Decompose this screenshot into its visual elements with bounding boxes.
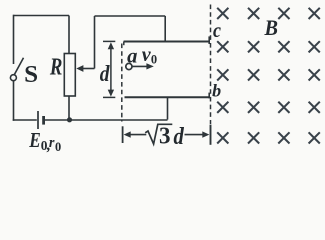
node c tick at top plate end — [208, 36, 210, 44]
rheostat wiper arrow — [76, 65, 94, 72]
wire wiper vertical — [94, 16, 96, 69]
svg-text:0: 0 — [151, 53, 157, 67]
node a circle — [126, 63, 132, 69]
svg-text:0: 0 — [55, 140, 61, 154]
wire to top plate — [164, 16, 166, 42]
wire plate circuit top — [95, 15, 166, 17]
dimension arrow d — [103, 41, 115, 97]
wire bottom left segment — [13, 119, 37, 121]
svg-text:d: d — [174, 123, 185, 150]
dashed boundary line right — [210, 5, 212, 125]
resistor R — [64, 54, 75, 97]
wire top of left loop — [14, 15, 70, 17]
wire left side lower — [13, 80, 15, 121]
capacitor top plate — [124, 42, 210, 46]
wire left side upper — [13, 15, 15, 64]
radical sign of sqrt(3)d — [145, 124, 172, 144]
wire bottom segment to plate feed — [45, 119, 168, 121]
dimension sqrt(3)d left tick — [122, 126, 124, 143]
wire R branch bottom — [68, 96, 70, 120]
svg-text:a: a — [127, 45, 137, 67]
node b tick at bottom plate end — [208, 93, 210, 99]
svg-text:c: c — [213, 18, 222, 42]
svg-text:r: r — [49, 135, 55, 151]
label E0,r0 — [28, 128, 61, 154]
dimension sqrt(3)d left arrow — [124, 131, 147, 137]
dashed boundary line left — [121, 44, 123, 122]
dimension sqrt(3)d right tick — [210, 125, 212, 145]
capacitor bottom plate — [125, 96, 210, 98]
svg-text:E: E — [28, 128, 40, 152]
svg-text:d: d — [100, 61, 110, 86]
wire bottom plate feed — [167, 97, 169, 119]
svg-text:b: b — [212, 81, 221, 101]
dimension sqrt(3)d right arrow — [185, 131, 210, 137]
junction dot — [67, 117, 72, 122]
svg-text:R: R — [49, 55, 62, 81]
svg-text:3: 3 — [159, 124, 171, 150]
battery E0,r0 — [38, 111, 44, 129]
magnetic field B cross symbols — [217, 8, 320, 144]
switch S — [10, 58, 23, 81]
svg-text:B: B — [264, 15, 278, 40]
wire R branch top — [68, 16, 70, 54]
velocity arrow v0 — [132, 63, 154, 69]
svg-text:S: S — [24, 62, 38, 88]
